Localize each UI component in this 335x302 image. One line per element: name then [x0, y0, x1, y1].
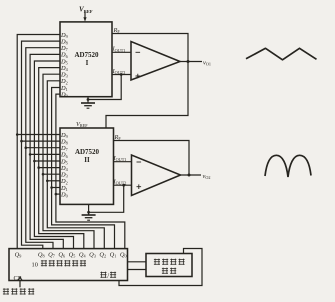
DAC U2 name label: [75, 148, 100, 164]
Vref supply lead to U1: [83, 13, 86, 22]
control block text line1: [154, 259, 185, 265]
svg-text:vO2: vO2: [203, 173, 211, 180]
svg-text:vO1: vO1: [203, 59, 211, 66]
counter box 10-bit up/down counter: [9, 249, 128, 281]
wire lead to U2 pin D7 with junction: [25, 146, 61, 149]
node junction at U1 ground stub: [87, 98, 90, 101]
svg-text:RF: RF: [114, 134, 122, 141]
wire A1 output: [180, 61, 202, 63]
wire Iout2 U2 return to ground: [89, 185, 124, 212]
svg-text:I: I: [86, 59, 89, 67]
wire Iout2 U1 return to ground: [88, 75, 121, 100]
wire lead to U2 pin D9 with junction: [16, 133, 60, 136]
svg-text:Q9: Q9: [15, 251, 22, 258]
svg-text:Q7: Q7: [48, 251, 55, 258]
node A1 output junction: [187, 60, 190, 63]
svg-text:D0: D0: [60, 191, 68, 198]
svg-text:Q3: Q3: [89, 251, 96, 258]
svg-text:Q6: Q6: [58, 251, 65, 258]
svg-text:Q1: Q1: [110, 251, 117, 258]
counter name label 10-bit reversible counter: [32, 260, 87, 269]
svg-text:Q5: Q5: [69, 251, 76, 258]
svg-text:IOUT1: IOUT1: [113, 155, 127, 162]
resistor feedback wire Rf of U1 to op-amp A1 output: [112, 34, 188, 62]
control block add/subtract control circuit: [146, 254, 192, 277]
control block text line2: [162, 268, 176, 274]
wire lead to U2 pin D4 with junction: [37, 166, 60, 169]
wire counter to control block input 2: [128, 269, 147, 271]
wire bus line Q7 to D7 (counter to DAC pins): [26, 48, 60, 249]
wire A2 output: [181, 174, 202, 176]
label counting pulse (Chinese): [3, 288, 34, 294]
wire A1 output to U2 Vref pin: [106, 62, 188, 129]
svg-text:AD7520: AD7520: [74, 51, 99, 59]
wire bus line Q9 to D9 (counter to DAC pins): [17, 35, 60, 249]
wire bus line Q1 to D1 (counter to DAC pins): [52, 88, 115, 249]
wire bus line Q4 to D4 (counter to DAC pins): [39, 68, 84, 249]
node junction on Iout2 U1: [120, 73, 123, 76]
wire lead to U2 pin D0 with junction: [55, 193, 60, 196]
op-amp A1: [131, 42, 180, 81]
svg-text:D0: D0: [60, 91, 68, 98]
svg-text:AD7520: AD7520: [75, 148, 100, 156]
wire bus line Q8 to D8 (counter to DAC pins): [22, 41, 61, 249]
svg-text:10: 10: [32, 262, 38, 269]
svg-text:VREF: VREF: [76, 121, 88, 128]
DAC U2 AD7520 II box: [60, 128, 114, 204]
triangle wave symbol: [246, 48, 317, 60]
op-amp A2: [132, 155, 181, 196]
node junction on Iout2 U2: [122, 184, 125, 187]
svg-text:IOUT2: IOUT2: [112, 68, 126, 75]
wire lead to U2 pin D6 with junction: [29, 153, 60, 156]
wire control block output loop to counter add/subtract pin: [119, 249, 202, 286]
wire bus line Q5 to D5 (counter to DAC pins): [34, 61, 73, 249]
wire Iout2 U1 to A1 non-inverting input: [112, 74, 131, 76]
wire bus line Q2 to D2 (counter to DAC pins): [47, 81, 104, 249]
ground symbol under U1: [81, 97, 95, 109]
counter CP clock input label: [14, 275, 23, 282]
node junction at U2 ground stub: [87, 211, 90, 214]
ground symbol under U2: [82, 204, 96, 220]
counter add/subtract control input label: [100, 272, 116, 280]
wire lead to U2 pin D8 with junction: [20, 140, 60, 143]
wire lead to U2 pin D3 with junction: [42, 173, 60, 176]
wire lead to U2 pin D2 with junction: [46, 180, 60, 183]
svg-text:Q8: Q8: [38, 251, 45, 258]
wire Iout1 U1 to A1 inverting input: [112, 51, 131, 53]
wire lead to U2 pin D1 with junction: [50, 186, 60, 189]
svg-text:II: II: [84, 156, 90, 164]
resistor feedback wire Rf of U2 to op-amp A2 output: [114, 141, 190, 175]
wire Iout1 U2 to A2 inverting input: [114, 161, 132, 163]
wire CP clock input lead: [19, 281, 21, 288]
svg-text:IOUT1: IOUT1: [112, 46, 126, 53]
node A2 output junction: [188, 174, 191, 177]
DAC U1 name label: [74, 51, 99, 67]
wire lead to U2 pin D5 with junction: [33, 160, 60, 163]
svg-text:Q0: Q0: [120, 251, 127, 258]
svg-text:Q2: Q2: [99, 251, 106, 258]
wire bus line Q6 to D6 (counter to DAC pins): [30, 54, 63, 248]
wire bus line Q0 to D0 (counter to DAC pins): [56, 94, 125, 249]
svg-text:/: /: [107, 272, 109, 280]
DAC U1 AD7520 I box: [60, 22, 112, 97]
svg-text:VREF: VREF: [79, 6, 93, 14]
wire Iout2 U2 to A2 non-inverting input: [114, 184, 132, 186]
rectified sine wave symbol: [265, 155, 311, 177]
wire bus line Q3 to D3 (counter to DAC pins): [43, 74, 94, 248]
svg-text:Q4: Q4: [79, 251, 87, 258]
svg-text:RF: RF: [113, 27, 121, 34]
wire counter to control block input 1: [128, 261, 147, 263]
